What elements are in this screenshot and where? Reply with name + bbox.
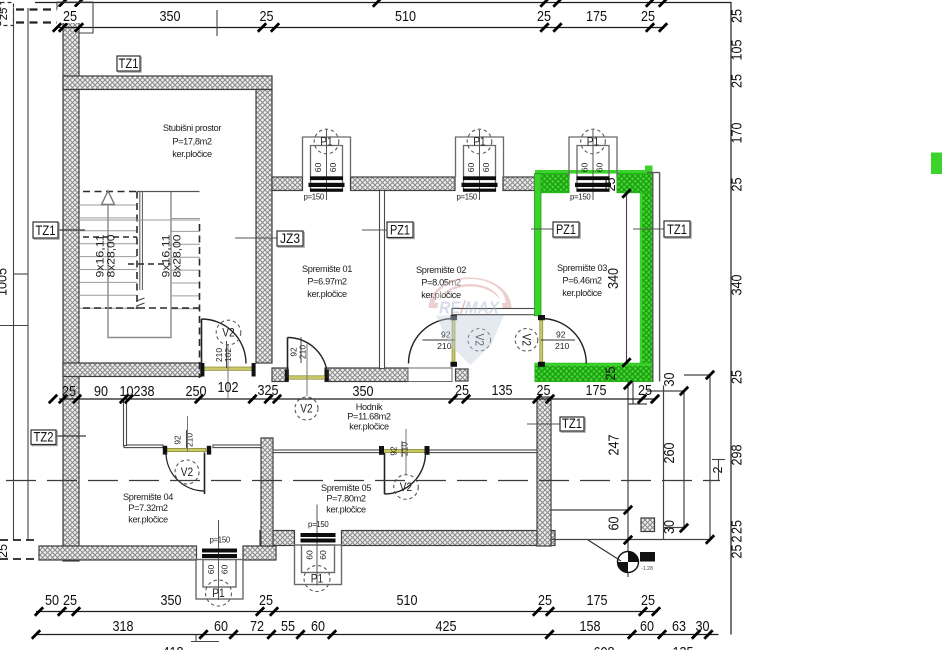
svg-text:60: 60 — [214, 618, 228, 635]
ext stair line v5 — [709, 375, 711, 540]
door V2 room04 swing arc — [166, 453, 205, 492]
door V2 room05 swing arc — [385, 453, 426, 494]
room label Spremiste 03 — [557, 263, 607, 298]
svg-text:25: 25 — [729, 74, 746, 88]
door V2 room01 size labels — [289, 345, 308, 359]
svg-text:Hodnik: Hodnik — [356, 402, 383, 412]
door V2 room03 leaf (open) — [540, 320, 543, 362]
svg-text:608: 608 — [594, 644, 615, 650]
room label Spremiste 04 — [123, 492, 173, 525]
door V2 room01 sill — [288, 376, 325, 379]
svg-text:92: 92 — [173, 435, 183, 445]
top left dashed wall continuation — [16, 8, 57, 10]
door V2 room03 swing arc — [541, 319, 586, 364]
door V2 room05 size labels — [389, 442, 410, 456]
stair dashed tread a — [83, 236, 137, 238]
green wall step top right corner — [645, 166, 653, 171]
green wall room03 top solid edge — [535, 170, 653, 174]
svg-text:1005: 1005 — [0, 268, 10, 296]
svg-text:V2: V2 — [181, 465, 194, 479]
door V2 room05 jamb caps — [379, 446, 384, 455]
svg-text:60: 60 — [311, 618, 325, 635]
ext stair line h5 — [664, 527, 685, 529]
svg-text:60: 60 — [305, 550, 315, 560]
stair landing top edge — [137, 191, 200, 193]
window P1 #4 outer frame — [295, 545, 342, 585]
ext dim ticks x710 — [706, 371, 714, 544]
stair dashed stringer right — [199, 224, 201, 378]
green wall room03 top hatch right — [617, 174, 653, 193]
svg-text:325: 325 — [258, 382, 279, 399]
svg-text:TZ1: TZ1 — [119, 56, 139, 72]
svg-text:25: 25 — [729, 545, 746, 559]
svg-text:25: 25 — [63, 592, 77, 609]
partition corridor nook top — [452, 309, 535, 315]
svg-text:25: 25 — [537, 382, 551, 399]
window P1 #2 outer frame — [456, 137, 504, 177]
door V2 room05 leaf — [384, 453, 386, 494]
P1 #1 — [314, 129, 339, 154]
svg-text:418: 418 — [163, 644, 184, 650]
svg-text:135: 135 — [673, 644, 694, 650]
PZ1 b — [553, 222, 580, 238]
svg-text:TZ2: TZ2 — [34, 430, 54, 446]
V2 r04 — [175, 460, 199, 484]
window P1 #4 width labels 60 60 — [305, 550, 329, 560]
PZ1 a — [387, 222, 414, 239]
window P1 #5 width labels 60 60 — [580, 163, 605, 173]
svg-text:25: 25 — [260, 8, 274, 25]
svg-text:P=7.32m2: P=7.32m2 — [128, 503, 168, 513]
left rail inner — [27, 8, 29, 540]
window P1 #2 width labels 60 60 — [466, 163, 491, 173]
dim 2 top tick line — [712, 459, 725, 461]
svg-text:-1.28: -1.28 — [641, 566, 653, 572]
door V2 staircase centre line — [227, 344, 229, 398]
svg-text:25: 25 — [537, 8, 551, 25]
svg-text:8x28,00: 8x28,00 — [172, 235, 184, 278]
ext stair line v1 — [627, 382, 629, 577]
ext pillar hatched — [641, 518, 655, 532]
svg-text:25: 25 — [259, 592, 273, 609]
svg-text:PZ1: PZ1 — [556, 222, 576, 238]
svg-text:ker.pločice: ker.pločice — [128, 515, 168, 525]
ext dim ticks x628 — [624, 381, 632, 544]
svg-text:8x28,00: 8x28,00 — [106, 235, 118, 278]
stair direction arrow head — [102, 191, 115, 205]
svg-text:TZ1: TZ1 — [562, 416, 582, 432]
svg-text:350: 350 — [161, 592, 182, 609]
svg-text:55: 55 — [281, 618, 295, 635]
JZ3 — [277, 231, 304, 247]
TZ1 right — [664, 221, 691, 238]
svg-text:Spremište 04: Spremište 04 — [123, 492, 173, 502]
svg-text:210: 210 — [298, 345, 308, 359]
svg-text:ker.pločice: ker.pločice — [562, 288, 602, 298]
svg-text:210: 210 — [555, 341, 570, 351]
svg-text:30: 30 — [661, 520, 678, 534]
svg-text:175: 175 — [587, 592, 608, 609]
stair top dashed line — [83, 191, 137, 193]
svg-text:210: 210 — [185, 433, 195, 447]
benchmark level box — [640, 552, 655, 562]
door V2 room05 centre line — [405, 429, 407, 475]
window P1 #1 glazing bars — [309, 176, 345, 192]
svg-text:Spremište 05: Spremište 05 — [321, 483, 371, 493]
white patch behind dim 25 — [59, 7, 81, 23]
room label Spremiste 05 — [321, 483, 371, 515]
svg-text:P1: P1 — [212, 586, 225, 600]
ext stair line h3 — [684, 374, 710, 376]
svg-text:158: 158 — [580, 618, 601, 635]
left bottom wall tick — [49, 395, 57, 403]
outer dimension frame — [35, 3, 731, 635]
door V2 room04 jamb caps — [163, 446, 167, 455]
outer top rail ticks — [59, 0, 667, 7]
TZ1 top — [117, 56, 141, 72]
ext landing line h4 — [551, 509, 628, 511]
svg-text:298: 298 — [729, 445, 746, 466]
stair riser labels flight 2 — [161, 235, 184, 278]
svg-text:60: 60 — [606, 517, 623, 531]
wall rooms bottom seg a — [272, 368, 288, 382]
door V2 staircase swing arc — [202, 319, 247, 364]
partition room04 top seg b — [213, 445, 261, 448]
door V2 staircase jamb caps — [200, 363, 204, 377]
door V2 staircase sill — [204, 367, 252, 370]
svg-text:Spremište 01: Spremište 01 — [302, 264, 352, 274]
svg-text:60: 60 — [328, 163, 338, 173]
svg-text:260: 260 — [661, 443, 678, 464]
svg-text:p=150: p=150 — [457, 193, 478, 202]
window P1 #2 inner frame — [464, 146, 496, 192]
svg-text:10238: 10238 — [120, 383, 155, 400]
door 02 threshold — [408, 368, 452, 382]
left rail connector — [14, 273, 29, 275]
svg-text:ker.pločice: ker.pločice — [349, 422, 389, 432]
svg-text:P1: P1 — [587, 134, 600, 148]
green wall room03 right — [642, 193, 653, 382]
svg-text:318: 318 — [113, 618, 134, 635]
window P1 #5 glazing bars — [575, 176, 611, 192]
outline right of green wall b — [659, 173, 661, 382]
svg-text:25: 25 — [638, 382, 652, 399]
top rail ticks — [59, 23, 667, 31]
svg-text:25: 25 — [603, 178, 618, 192]
middle rail — [59, 398, 655, 400]
window P1 #3 centre line — [218, 520, 220, 600]
svg-text:25: 25 — [0, 544, 10, 558]
svg-text:P=7.80m2: P=7.80m2 — [326, 494, 366, 504]
wall rooms top seg c — [503, 177, 535, 191]
svg-text:250: 250 — [186, 383, 207, 400]
svg-text:TZ1: TZ1 — [36, 223, 56, 239]
svg-text:510: 510 — [397, 592, 418, 609]
svg-text:72: 72 — [250, 618, 264, 635]
svg-text:170: 170 — [729, 123, 746, 144]
window P1 #1 outer frame — [303, 137, 351, 177]
door V2 staircase leaf — [201, 319, 203, 364]
svg-text:p=150: p=150 — [308, 520, 329, 529]
svg-text:p=150: p=150 — [210, 536, 231, 545]
wall room05 bottom seg a — [260, 531, 295, 546]
rail2 step line — [195, 635, 197, 642]
ext stair line v2 — [632, 383, 634, 405]
door V2 room04 size fraction bar — [186, 430, 188, 448]
V2 r01 — [295, 397, 318, 420]
PZ1 a leader — [362, 229, 387, 231]
partition room05 top seg a — [273, 450, 380, 453]
TZ2 leader — [54, 435, 86, 437]
svg-text:105: 105 — [729, 40, 746, 61]
svg-text:JZ3: JZ3 — [280, 231, 300, 247]
PZ1 b leader — [531, 228, 553, 230]
wall rooms top seg b — [351, 177, 456, 191]
svg-text:2: 2 — [729, 536, 746, 543]
wall lower right vertical (TZ1) — [537, 397, 551, 546]
svg-text:60: 60 — [466, 163, 476, 173]
svg-text:175: 175 — [586, 382, 607, 399]
svg-text:510: 510 — [395, 8, 416, 25]
JZ3 leader — [235, 237, 277, 239]
door V2 staircase size labels — [214, 348, 233, 362]
door V2 room02 swing arc — [409, 319, 454, 364]
svg-text:350: 350 — [353, 383, 374, 400]
stair dashed stringer left — [136, 192, 138, 310]
door V2 room02 leaf caps — [451, 315, 458, 320]
ext stair line h2 — [647, 390, 684, 392]
bottom rail2 ticks — [32, 630, 713, 638]
TZ1 left leader — [54, 229, 85, 231]
benchmark leader — [588, 540, 621, 561]
svg-text:P=6.46m2: P=6.46m2 — [562, 276, 602, 286]
window P1 #3 inner frame — [203, 560, 236, 588]
ext stair line h6 — [551, 539, 710, 541]
window P1 #1 centre line — [326, 130, 328, 200]
svg-text:PZ1: PZ1 — [390, 223, 410, 239]
bottom rail1 ticks — [35, 607, 660, 615]
svg-text:V2: V2 — [400, 480, 413, 494]
svg-text:25: 25 — [0, 8, 10, 21]
green marker right edge — [931, 153, 942, 175]
svg-text:25: 25 — [63, 8, 77, 25]
middle rail ticks — [59, 395, 659, 403]
door V2 room01 leaf — [287, 338, 289, 378]
ext stair line v4 — [683, 391, 685, 528]
outer rail ticks — [0, 0, 1, 1]
window P1 #5 inner frame — [577, 146, 609, 192]
svg-text:175: 175 — [586, 8, 607, 25]
window P1 #4 glazing bars — [301, 533, 336, 543]
top left wall ticks — [53, 23, 61, 31]
green wall room03 bottom — [535, 363, 653, 381]
svg-text:ker.pločice: ker.pločice — [172, 149, 212, 159]
svg-text:V2: V2 — [520, 334, 534, 347]
dim 2 line — [718, 460, 720, 482]
door V2 room05 sill — [382, 449, 426, 452]
svg-text:V2: V2 — [300, 401, 313, 415]
svg-text:25: 25 — [62, 383, 76, 400]
svg-text:25: 25 — [729, 370, 746, 384]
svg-text:102: 102 — [218, 379, 239, 396]
room label Hodnik — [347, 402, 391, 432]
svg-text:247: 247 — [606, 435, 623, 456]
svg-text:60: 60 — [220, 565, 230, 575]
outline right of green wall top — [647, 172, 660, 174]
P1 #3 — [206, 580, 232, 606]
svg-text:60: 60 — [318, 550, 328, 560]
dim 340 ticks — [622, 189, 630, 366]
V2 r02 — [468, 329, 491, 352]
wall rooms top seg a — [272, 177, 303, 191]
svg-text:P1: P1 — [473, 134, 486, 148]
stair riser labels flight 1 — [95, 235, 118, 278]
ext dim ticks x684 — [680, 387, 688, 532]
svg-text:25: 25 — [729, 9, 746, 23]
P1 #5 — [581, 129, 606, 154]
green partition rooms 02-03 — [535, 174, 542, 316]
stair treads left flight — [80, 205, 137, 308]
svg-text:60: 60 — [640, 618, 654, 635]
room label Stubisni prostor — [163, 123, 222, 159]
svg-text:V2: V2 — [222, 325, 235, 339]
wall staircase right (JZ3) — [256, 90, 272, 364]
TZ2 — [31, 430, 57, 446]
svg-text:p=150: p=150 — [304, 193, 325, 202]
window P1 #1 width labels 60 60 — [313, 163, 338, 173]
svg-text:425: 425 — [436, 618, 457, 635]
svg-text:25: 25 — [538, 592, 552, 609]
wall partition rooms 04-05 — [261, 438, 273, 546]
window P1 #5 centre line — [592, 130, 594, 200]
rail2 step line b — [191, 641, 219, 643]
window P1 #3 glazing bars — [202, 549, 237, 559]
wall staircase top (TZ1) — [63, 76, 272, 90]
V2 r05 — [394, 475, 419, 500]
wall room05 bottom seg b — [342, 531, 556, 546]
window P1 #2 centre line — [479, 130, 481, 200]
P1 #2 — [467, 129, 492, 154]
partition room04 top seg a — [124, 445, 163, 448]
door V2 room03 leaf caps — [538, 315, 545, 320]
svg-text:25: 25 — [641, 592, 655, 609]
door V2 room01 centre line — [306, 344, 308, 396]
bottom rail 1 — [36, 611, 658, 613]
svg-text:30: 30 — [696, 618, 710, 635]
door V2 room02 leaf (open) — [452, 320, 455, 362]
door V2 room01 jamb caps — [285, 370, 289, 382]
svg-text:60: 60 — [595, 163, 605, 173]
V2 stair — [216, 320, 241, 345]
svg-text:25: 25 — [641, 8, 655, 25]
svg-text:60: 60 — [206, 565, 216, 575]
svg-text:25: 25 — [729, 178, 746, 192]
door V2 room03 size labels 92/210 — [541, 330, 575, 352]
svg-text:340: 340 — [729, 275, 746, 296]
svg-text:ker.pločice: ker.pločice — [326, 505, 366, 515]
svg-text:P=6.97m2: P=6.97m2 — [307, 277, 347, 287]
outline right of green wall a — [652, 173, 654, 382]
svg-text:P=11.68m2: P=11.68m2 — [347, 412, 391, 422]
door V2 room02 size labels 92/210 — [423, 330, 456, 352]
svg-text:RE/MAX: RE/MAX — [439, 298, 500, 318]
door V2 room01 swing arc — [288, 338, 328, 378]
svg-text:92: 92 — [389, 446, 399, 456]
svg-text:P1: P1 — [311, 571, 324, 585]
window P1 #2 glazing bars — [462, 176, 498, 192]
stair dashed tread b — [128, 263, 171, 265]
svg-text:25: 25 — [455, 382, 469, 399]
svg-text:60: 60 — [313, 163, 323, 173]
svg-text:P=17,8m2: P=17,8m2 — [172, 137, 212, 147]
window P1 #4 centre line — [316, 505, 318, 586]
top left corner outline — [57, 2, 93, 33]
svg-text:Spremište 02: Spremište 02 — [416, 265, 466, 275]
door V2 room04 size labels — [173, 433, 195, 447]
window P1 #5 outer frame — [569, 137, 617, 177]
P1 #4 — [304, 566, 330, 592]
window P1 #4 inner frame — [302, 545, 335, 573]
door V2 room04 leaf — [204, 453, 206, 495]
wall staircase bottom seg a — [63, 363, 201, 377]
svg-text:90: 90 — [94, 383, 108, 400]
V2 r03 — [515, 329, 538, 352]
door V2 room01 size fraction bar — [300, 337, 302, 363]
svg-text:Stubišni prostor: Stubišni prostor — [163, 123, 222, 133]
svg-text:p=150: p=150 — [570, 193, 591, 202]
partition rooms 01-02 — [380, 191, 385, 369]
svg-text:340: 340 — [605, 268, 622, 289]
stair walking line — [108, 192, 171, 338]
left rail outer — [13, 8, 15, 540]
top left dashed box — [1, 3, 14, 26]
svg-text:63: 63 — [672, 618, 686, 635]
svg-text:TZ1: TZ1 — [667, 222, 687, 238]
svg-text:P1: P1 — [320, 134, 333, 148]
wall room04 bottom right seg — [243, 546, 276, 560]
svg-text:210: 210 — [400, 442, 410, 456]
window P1 #3 outer frame — [196, 560, 243, 600]
bottom rail 2 — [36, 634, 719, 636]
svg-text:25: 25 — [729, 520, 746, 534]
window P1 #3 width labels 60 60 — [206, 565, 230, 575]
stair railing double line — [139, 192, 141, 290]
stair railing break marks — [137, 298, 145, 306]
door V2 staircase size fraction bar — [226, 341, 228, 368]
pillar at corridor nook — [456, 369, 469, 381]
TZ1 left — [33, 222, 59, 239]
top rail — [57, 27, 663, 29]
wall left exterior (TZ1) — [63, 8, 79, 561]
svg-text:30: 30 — [661, 373, 678, 387]
top rail axis mark — [216, 10, 218, 36]
left rail connector b — [0, 325, 28, 327]
ext stair line h1 — [628, 403, 647, 405]
partition corridor jog — [124, 399, 127, 446]
dim 340 line — [626, 193, 628, 363]
TZ1 lower — [560, 416, 585, 432]
svg-text:135: 135 — [492, 382, 513, 399]
door V2 room05 size fraction bar — [401, 441, 403, 457]
room label Spremiste 01 — [302, 264, 352, 299]
svg-text:350: 350 — [160, 8, 181, 25]
svg-text:2: 2 — [711, 466, 725, 473]
stair landing mid edge — [80, 219, 200, 221]
TZ1 right leader — [633, 228, 664, 230]
partition room05 top seg b — [428, 450, 537, 453]
svg-text:92: 92 — [556, 330, 566, 340]
door V2 room04 centre line — [187, 416, 189, 452]
